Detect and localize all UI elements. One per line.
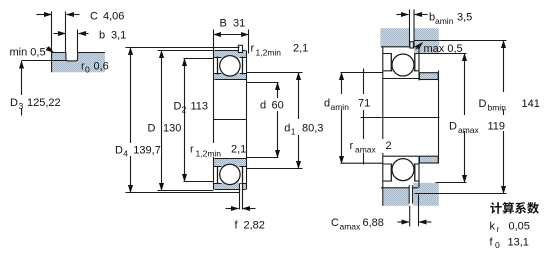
extension line groove right (77, 30, 79, 53)
D dimension line (161, 51, 163, 191)
leader min 0,5 (47, 48, 54, 53)
cage top (218, 57, 243, 75)
svg-text:3,5: 3,5 (457, 12, 472, 24)
damin dimension line (341, 73, 343, 164)
B extension right (248, 30, 250, 54)
svg-text:4: 4 (123, 149, 128, 159)
right cage bottom (391, 164, 415, 181)
outer ring bottom inner edge (214, 183, 247, 185)
D2 top ext (184, 58, 214, 60)
svg-text:3: 3 (19, 101, 24, 111)
svg-text:d: d (260, 100, 266, 112)
svg-text:min 0,5: min 0,5 (10, 47, 46, 59)
d1 bottom ext (247, 168, 303, 170)
D4 bottom ext (126, 192, 240, 194)
svg-text:13,1: 13,1 (508, 237, 529, 249)
d bottom ext (247, 157, 279, 159)
Db step line top (415, 40, 507, 42)
svg-text:D: D (479, 98, 487, 110)
svg-text:d: d (284, 123, 290, 135)
svg-text:r: r (350, 140, 354, 152)
groove detail outline (52, 53, 105, 73)
housing slot edges top (410, 10, 415, 48)
svg-text:amax: amax (340, 222, 362, 232)
svg-text:D: D (10, 97, 18, 109)
svg-text:0: 0 (495, 240, 500, 250)
right bottom ball (392, 159, 414, 181)
groove detail ring section (52, 53, 105, 73)
extension line C left (51, 12, 53, 53)
bearing face right (246, 51, 248, 190)
svg-text:139,7: 139,7 (133, 145, 161, 157)
bore line top (215, 79, 247, 81)
bore line bottom (215, 158, 247, 160)
shaft shoulder face line (438, 71, 440, 164)
Damax top ext (420, 53, 467, 55)
Damax dimension line (464, 54, 466, 183)
svg-text:4,06: 4,06 (103, 11, 124, 23)
Dbmin dimension line (503, 41, 505, 194)
svg-text:k: k (490, 221, 496, 233)
bamin arrows (397, 14, 409, 16)
housing bottom right block (413, 183, 438, 206)
inner ring top edge lines (214, 73, 247, 75)
outer raceway patch bottom (222, 181, 239, 190)
shaft shoulder strip top (419, 73, 438, 80)
svg-text:0,6: 0,6 (94, 61, 109, 73)
svg-text:80,3: 80,3 (302, 123, 323, 135)
svg-text:f: f (490, 237, 494, 249)
snap ring tab right top (410, 42, 414, 48)
svg-text:D: D (449, 121, 457, 133)
Camax left ext (409, 206, 411, 227)
svg-text:31: 31 (233, 18, 245, 30)
Damax bottom ext (436, 182, 467, 184)
label backgrounds (8, 92, 539, 157)
right bearing faces (382, 47, 384, 206)
Camax arrows (398, 221, 410, 223)
outer ring top inner edge (214, 57, 247, 59)
main figure: inner ring bottom band fill (213, 159, 247, 167)
svg-text:60: 60 (272, 100, 284, 112)
svg-text:amax: amax (355, 145, 377, 155)
main figure: inner ring top band fill (213, 74, 247, 79)
svg-text:2: 2 (386, 140, 392, 152)
f dimension arrows (226, 208, 239, 210)
dimension b arrows (54, 33, 66, 35)
svg-text:max 0,5: max 0,5 (424, 43, 463, 55)
top ball (220, 56, 240, 76)
svg-text:1,2min: 1,2min (256, 48, 282, 58)
svg-text:amin: amin (435, 16, 454, 26)
svg-text:71: 71 (358, 98, 370, 110)
svg-text:b: b (99, 30, 105, 42)
main figure: outer ring bottom band fill (213, 184, 247, 190)
damin bottom ext (341, 162, 383, 164)
shaft shoulder strip bottom (419, 156, 438, 163)
cage bottom (218, 167, 243, 184)
right bearing bottom edge (381, 187, 418, 189)
OD bottom edge (215, 189, 246, 191)
shaft end face line (363, 69, 365, 165)
right cage top (391, 54, 415, 72)
right bore top (383, 78, 419, 80)
extension line groove left (65, 12, 67, 53)
svg-text:amax: amax (458, 125, 480, 135)
OD top edge (215, 50, 246, 52)
f groove edge lines (240, 184, 243, 210)
svg-text:d: d (324, 98, 330, 110)
inner ring bottom edge lines (214, 166, 247, 168)
svg-text:1: 1 (291, 127, 296, 137)
svg-text:2: 2 (182, 105, 187, 115)
svg-text:119: 119 (488, 121, 506, 133)
svg-text:D: D (174, 101, 182, 113)
right figure axis segment (361, 117, 440, 119)
right outer ring bottom inner edge (383, 180, 420, 182)
svg-text:141: 141 (522, 98, 540, 110)
svg-text:amin: amin (331, 102, 350, 112)
svg-text:bmin: bmin (488, 103, 507, 113)
svg-text:D: D (148, 123, 156, 135)
calculation factors heading (490, 202, 539, 214)
D4 top ext (126, 47, 240, 49)
housing bottom left block (383, 188, 409, 206)
svg-text:0,05: 0,05 (509, 221, 530, 233)
svg-text:r: r (251, 43, 255, 55)
inner raceway patch top (222, 71, 239, 79)
right inner ring top edge (383, 70, 420, 72)
housing top right block (414, 28, 439, 53)
svg-text:2,1: 2,1 (293, 43, 308, 55)
svg-text:D: D (115, 145, 123, 157)
snap ring groove bottom (empty) (239, 184, 242, 190)
svg-text:1,2min: 1,2min (196, 149, 222, 159)
dimension C arrows (37, 14, 52, 16)
svg-text:2,82: 2,82 (244, 220, 265, 232)
Camax right ext (418, 195, 420, 227)
svg-text:125,22: 125,22 (27, 97, 61, 109)
right inner ring bottom edge (383, 163, 420, 165)
svg-text:3,1: 3,1 (111, 30, 126, 42)
d1 dimension line (298, 73, 300, 169)
svg-text:C: C (331, 217, 339, 229)
D2 dimension line (184, 59, 186, 182)
d dimension line (277, 83, 279, 158)
damin top ext (341, 72, 383, 74)
right bearing top edge (381, 46, 418, 48)
main figure: outer ring top band fill (213, 50, 247, 57)
svg-text:C: C (90, 11, 98, 23)
svg-text:r: r (497, 224, 500, 234)
B extension left (213, 30, 215, 51)
svg-text:113: 113 (191, 101, 209, 113)
svg-text:0: 0 (85, 65, 90, 75)
Db step line bottom (415, 193, 507, 195)
D2 bottom ext (184, 181, 214, 183)
svg-text:r: r (190, 144, 194, 156)
svg-text:f: f (235, 220, 239, 232)
D4 dimension line (130, 48, 132, 193)
D3 level line (22, 60, 67, 62)
right top ball (392, 54, 414, 76)
bottom ball (220, 164, 240, 184)
outer raceway patch top (222, 50, 239, 60)
d1 top ext (247, 72, 303, 74)
D top ext (158, 50, 214, 52)
d top ext (247, 82, 279, 84)
bearing face left (213, 51, 215, 190)
svg-text:130: 130 (163, 123, 181, 135)
inner raceway patch bottom (222, 159, 239, 170)
housing top left block (380, 28, 409, 47)
right outer ring top inner edge (383, 53, 420, 55)
right bore bottom (383, 155, 419, 157)
svg-text:B: B (220, 18, 227, 30)
snap ring tab top (238, 45, 242, 52)
axis segment (214, 119, 247, 121)
housing slot edges bottom (410, 185, 413, 203)
B dimension line (214, 34, 249, 36)
D bottom ext (158, 190, 214, 192)
D3 dimension line (21, 61, 23, 116)
max 0,5 leader (416, 43, 423, 50)
svg-text:6,88: 6,88 (363, 217, 384, 229)
svg-text:2,1: 2,1 (231, 144, 246, 156)
